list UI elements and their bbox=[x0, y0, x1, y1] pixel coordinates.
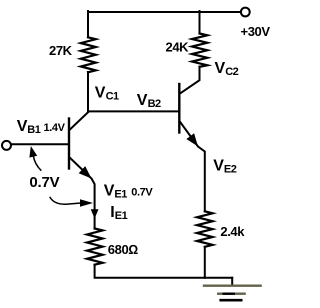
svg-text:V: V bbox=[95, 85, 106, 102]
svg-text:27K: 27K bbox=[49, 43, 73, 58]
svg-text:B1: B1 bbox=[27, 124, 40, 136]
svg-text:1.4V: 1.4V bbox=[44, 122, 66, 134]
svg-text:V: V bbox=[213, 158, 224, 175]
svg-text:+30V: +30V bbox=[241, 24, 271, 39]
svg-text:680Ω: 680Ω bbox=[108, 242, 138, 257]
svg-text:2.4k: 2.4k bbox=[220, 224, 245, 239]
svg-text:V: V bbox=[17, 118, 28, 135]
svg-text:0.7V: 0.7V bbox=[131, 186, 153, 198]
svg-text:0.7V: 0.7V bbox=[29, 174, 59, 191]
svg-text:C1: C1 bbox=[106, 91, 119, 103]
svg-text:C2: C2 bbox=[225, 66, 238, 78]
svg-text:E1: E1 bbox=[115, 210, 128, 222]
svg-text:24K: 24K bbox=[166, 39, 190, 54]
svg-text:B2: B2 bbox=[148, 98, 161, 110]
svg-text:V: V bbox=[137, 92, 148, 109]
svg-text:E1: E1 bbox=[114, 188, 127, 200]
svg-text:V: V bbox=[104, 182, 115, 199]
svg-text:E2: E2 bbox=[224, 164, 237, 176]
svg-text:V: V bbox=[215, 60, 226, 77]
